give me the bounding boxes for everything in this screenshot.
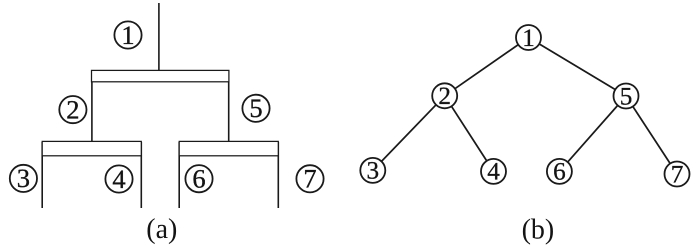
lower-right bar — [179, 141, 278, 155]
svg-text:5: 5 — [620, 83, 633, 110]
svg-text:2: 2 — [66, 94, 79, 124]
wire hang line left of lower-right bar — [178, 142, 180, 208]
node 6 (a) — [185, 163, 212, 193]
lower-left bar — [42, 141, 141, 155]
svg-text:6: 6 — [192, 163, 205, 193]
edge 2-3 — [373, 96, 445, 171]
wire hang line left of lower-left bar — [41, 142, 43, 208]
node 1 (b) — [516, 25, 541, 52]
svg-text:4: 4 — [487, 159, 500, 186]
edge 1-2 — [445, 38, 529, 96]
node 3 (a) — [10, 163, 37, 193]
svg-text:7: 7 — [671, 161, 684, 188]
node 1 (a) — [114, 20, 141, 50]
svg-text:5: 5 — [249, 93, 262, 123]
node 4 (a) — [105, 164, 132, 194]
node 5 (a) — [242, 93, 269, 123]
wire right string from top bar — [228, 71, 230, 142]
svg-text:4: 4 — [112, 164, 125, 194]
svg-text:1: 1 — [121, 20, 134, 50]
edge 5-7 — [626, 96, 677, 174]
wire hang line right of lower-right bar — [277, 142, 279, 208]
node 6 (b) — [547, 159, 572, 186]
node 2 (a) — [59, 94, 86, 124]
svg-text:(b): (b) — [522, 215, 555, 245]
svg-text:1: 1 — [522, 25, 535, 52]
node 5 (b) — [614, 83, 639, 110]
figure (a) mobile diagram — [42, 3, 278, 208]
svg-text:3: 3 — [367, 158, 380, 185]
node 2 (b) — [432, 83, 457, 110]
node 3 (b) — [360, 158, 385, 185]
edge 1-5 — [529, 38, 627, 97]
node 7 (b) — [665, 161, 690, 188]
svg-text:(a): (a) — [146, 214, 177, 245]
svg-text:3: 3 — [17, 163, 30, 193]
wire left string from top bar — [91, 71, 93, 142]
wire hang line right of lower-left bar — [140, 142, 142, 208]
wire top string — [158, 3, 160, 71]
edge 5-6 — [559, 96, 626, 171]
edge 2-4 — [445, 96, 494, 172]
node 4 (b) — [481, 159, 506, 186]
figure (b) binary tree — [373, 38, 677, 175]
top bar — [92, 70, 229, 81]
svg-text:6: 6 — [553, 159, 566, 186]
svg-text:2: 2 — [438, 83, 451, 110]
node 7 (a) — [296, 164, 323, 194]
svg-text:7: 7 — [303, 164, 316, 194]
